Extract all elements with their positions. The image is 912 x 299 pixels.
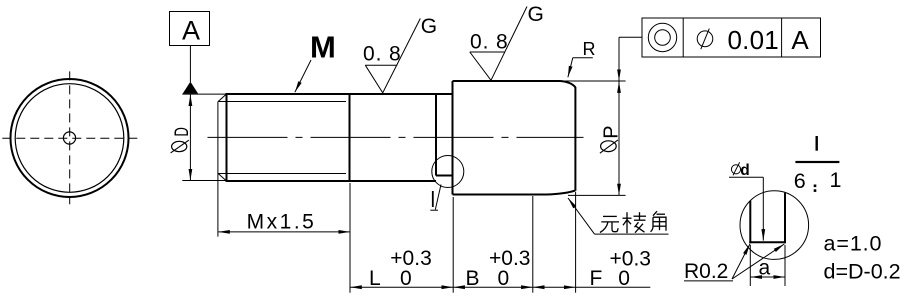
svg-text:a: a	[759, 257, 771, 280]
svg-text:B: B	[466, 267, 480, 290]
svg-text:0.01: 0.01	[728, 25, 779, 55]
svg-text:a=1.0: a=1.0	[824, 232, 883, 256]
svg-text:0: 0	[498, 267, 510, 290]
svg-text:A: A	[791, 25, 809, 55]
svg-text:0. 8: 0. 8	[363, 42, 402, 65]
svg-text:1: 1	[830, 168, 842, 192]
svg-text:F: F	[590, 267, 603, 290]
svg-text:R: R	[583, 39, 596, 59]
svg-text:R0.2: R0.2	[684, 260, 728, 283]
svg-text:P: P	[601, 125, 623, 138]
svg-text:L: L	[369, 267, 381, 290]
svg-text:A: A	[182, 16, 200, 46]
svg-text:+0.3: +0.3	[610, 248, 651, 271]
svg-text:+0.3: +0.3	[489, 247, 530, 270]
svg-text:6: 6	[794, 169, 806, 193]
svg-text:0: 0	[400, 267, 412, 290]
svg-text:0. 8: 0. 8	[470, 31, 509, 54]
svg-text:d=D-0.2: d=D-0.2	[824, 259, 901, 283]
svg-text:+0.3: +0.3	[390, 247, 431, 270]
svg-text:G: G	[421, 15, 437, 38]
svg-text:d: d	[740, 162, 749, 179]
svg-text:G: G	[528, 3, 544, 26]
svg-text:M: M	[310, 30, 336, 65]
svg-text:D: D	[171, 127, 192, 136]
svg-text:Mx1.5: Mx1.5	[247, 211, 317, 234]
